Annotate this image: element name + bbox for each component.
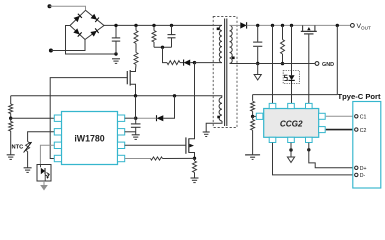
node U2 gnd stub	[289, 148, 292, 151]
diode sense D2	[136, 115, 164, 121]
node primary dot	[217, 28, 220, 31]
resistor sense Rsn	[193, 158, 197, 178]
wire pin7 to vcc gnd	[125, 131, 136, 133]
node aux dot	[217, 116, 220, 119]
resistor clamp Rc	[152, 25, 156, 47]
connector Type-C port	[353, 102, 381, 189]
wire secondary rail	[230, 24, 241, 26]
transformer T1 dashed box	[213, 17, 237, 128]
svg-text:NTC: NTC	[12, 144, 24, 150]
node vout corner	[336, 24, 339, 27]
resistor bleeder Rb2	[281, 25, 285, 63]
resistor vdiv R12	[251, 116, 255, 154]
thermistor NTC	[24, 142, 32, 168]
pin U1 left 2	[54, 129, 61, 135]
wire vbus to CCG2 pin	[272, 25, 274, 103]
pin U2 bottom 2	[288, 137, 295, 142]
svg-text:Tpye-C Port: Tpye-C Port	[338, 92, 382, 101]
ground opto arrow	[40, 185, 48, 191]
wire N to bridge bottom	[51, 40, 85, 51]
wire vout drop	[336, 25, 338, 94]
resistor divider Rb	[9, 118, 13, 154]
pin U1 right 7	[118, 129, 125, 135]
wire vdiv to CCG2 pin	[253, 115, 257, 117]
node clamp C	[170, 24, 173, 27]
bridge rectifier BR1 diamond	[70, 10, 104, 39]
node source Q2	[193, 157, 196, 160]
transformer T1 core	[225, 19, 227, 127]
wire vbus divider top	[253, 94, 338, 96]
pin U2 top 2	[288, 103, 295, 108]
transistor Q2 main MOSFET	[186, 63, 195, 159]
wire aux return	[206, 121, 222, 132]
node D+ corner	[307, 148, 310, 151]
svg-text:GND: GND	[322, 62, 334, 68]
capacitor bus C1	[112, 25, 120, 54]
node bus-C1	[114, 24, 117, 27]
pin D-	[355, 173, 358, 176]
node aux sense	[173, 94, 176, 97]
optocoupler U3 LED	[37, 165, 51, 182]
wire drain to primary bottom	[195, 62, 223, 64]
node bleeder gnd	[281, 62, 284, 65]
pin C2	[355, 128, 358, 131]
node out cap gnd	[256, 62, 259, 65]
wire gnd rail secondary	[230, 63, 315, 65]
wire sense branch	[163, 96, 174, 118]
pin U1 left 1	[54, 115, 61, 121]
node bleeder	[281, 24, 284, 27]
wire vbus rail	[247, 24, 353, 26]
ground aux	[203, 132, 210, 137]
IC U1 iW1780	[62, 112, 118, 165]
pin U1 right 6	[118, 142, 125, 148]
wire opto to ground	[43, 181, 45, 185]
wire D+ from CCG2	[309, 143, 354, 168]
wire DC bus rail	[104, 24, 222, 26]
svg-text:D+: D+	[360, 166, 367, 172]
resistor startup R2	[134, 44, 138, 71]
pin U2 bottom 1	[269, 137, 276, 142]
node secondary dot	[232, 57, 235, 60]
pin U1 right 5	[118, 155, 125, 161]
node zener tap	[290, 24, 293, 27]
ground vcc	[132, 134, 140, 136]
wire clamp bottom bar	[154, 46, 172, 48]
wire CC1	[326, 115, 354, 117]
transistor Q1 startup MOSFET	[127, 70, 135, 96]
winding T1 primary	[219, 25, 222, 62]
pin U2 top 1	[269, 103, 276, 108]
wire CC2	[326, 129, 354, 131]
wire L to bridge top	[50, 6, 86, 10]
node out cap	[256, 24, 259, 27]
node startup chain	[134, 24, 137, 27]
pin U2 right 1	[319, 113, 326, 119]
svg-text:iW1780: iW1780	[74, 134, 104, 144]
wire zener branch	[291, 25, 293, 70]
capacitor vcc C3	[131, 118, 141, 135]
pin C1	[355, 115, 358, 118]
svg-text:C1: C1	[360, 115, 367, 121]
node clamp	[161, 46, 164, 49]
svg-text:CCG2: CCG2	[280, 119, 303, 128]
wire bridge DC- to bus cap	[66, 26, 117, 55]
node vbus tap	[271, 24, 274, 27]
ground vdiv	[245, 155, 260, 160]
ground NTC	[24, 167, 32, 169]
wire Q3 gate to CCG2	[308, 34, 310, 103]
wire divider to pin VSEN	[11, 117, 55, 119]
node clamp R	[152, 24, 155, 27]
wire D- from CCG2	[273, 143, 355, 175]
ground CCG2	[287, 143, 294, 163]
node divider	[9, 117, 12, 120]
node drain	[193, 61, 196, 64]
transistor Q3 load switch PMOS	[301, 25, 317, 34]
terminal VOUT	[351, 24, 355, 28]
pin D+	[355, 166, 358, 169]
resistor startup R1	[134, 25, 138, 43]
svg-text:C2: C2	[360, 128, 367, 134]
ground divider	[7, 154, 15, 156]
capacitor clamp Cc	[168, 25, 176, 47]
wire pin5 sense	[125, 157, 195, 160]
AC input terminal N	[49, 49, 53, 53]
node Q1 source	[134, 94, 137, 97]
wire gate Q2	[125, 144, 186, 146]
wire Q1 gate	[50, 78, 127, 159]
winding T1 secondary	[230, 25, 233, 63]
capacitor output C5	[253, 25, 262, 63]
wire zener to CCG2	[291, 84, 293, 104]
resistor snubber Rs	[167, 61, 180, 65]
ground sense	[191, 177, 199, 179]
ground output	[254, 64, 261, 81]
wire pin8 to vcc node	[125, 117, 136, 119]
diode clamp Dc	[180, 60, 195, 66]
wire clamp to snubber	[163, 47, 168, 62]
resistor vdiv R11	[251, 95, 255, 117]
diode output D1	[240, 22, 246, 28]
pin U2 left	[256, 113, 263, 119]
wire Q1 source to vcc node	[135, 96, 137, 118]
ground bus	[112, 58, 120, 60]
pin U2 right 2	[319, 127, 326, 133]
pin U1 right 8	[118, 115, 125, 121]
pin U2 top 3	[306, 103, 313, 108]
AC input terminal L	[48, 4, 52, 8]
pin U1 left 4	[54, 155, 61, 161]
terminal GND	[315, 62, 319, 66]
IC U2 CCG2	[264, 109, 319, 138]
svg-text:D-: D-	[360, 173, 366, 179]
resistor divider Ra	[9, 96, 13, 118]
pin U2 bottom 3	[306, 137, 313, 142]
node vdiv	[251, 115, 254, 118]
node bus cap bottom	[114, 52, 117, 55]
diode zener TVS box	[283, 71, 299, 84]
wire opto branch	[40, 145, 54, 164]
wire NTC branch	[28, 132, 55, 142]
pin U1 left 3	[54, 142, 61, 148]
winding T1 aux	[219, 98, 222, 122]
node vcc	[134, 117, 137, 120]
wire vcc-aux net	[11, 96, 222, 98]
